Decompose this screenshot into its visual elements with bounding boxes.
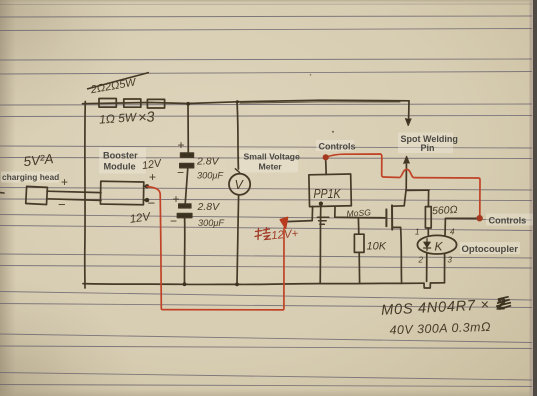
- svg-text:4: 4: [450, 228, 455, 237]
- pen speck: [310, 74, 312, 76]
- svg-text:−: −: [170, 214, 177, 228]
- MOSFET Q1 source wire to bus: [401, 227, 402, 283]
- wire 12V+ to PP1K lead A: [287, 221, 313, 222]
- junction dot top bus / caps: [186, 102, 190, 106]
- svg-text:Pin: Pin: [421, 143, 435, 153]
- spot welding bottom electrode arrowhead: [404, 156, 409, 163]
- svg-text:1Ω 5W: 1Ω 5W: [99, 110, 139, 127]
- wire C2 to bottom bus: [183, 218, 185, 284]
- voltmeter V1 circle: [229, 174, 250, 195]
- text: MOS 4N04R7 X2 note: [381, 296, 512, 320]
- MOSFET Q1 source tick: [392, 226, 400, 228]
- PP1K top lead to controls: [325, 160, 328, 174]
- svg-text:Small Voltage: Small Voltage: [244, 152, 300, 162]
- bus hook square at pin2: [424, 283, 430, 288]
- svg-text:K: K: [435, 240, 444, 254]
- red wire from booster + down and around to 12V+ arrow: [147, 187, 284, 310]
- svg-text:−: −: [177, 166, 184, 180]
- svg-text:MoSG: MoSG: [346, 207, 371, 218]
- resistor R1: [99, 99, 116, 108]
- red wire from left controls dot to right controls dot: [326, 154, 480, 215]
- text: MoSG: [346, 207, 371, 218]
- PP1K bottom lead A to 12V wire: [311, 206, 313, 220]
- opto LED cathode lead inside: [426, 239, 428, 251]
- opto pin3 lead down to bus: [444, 254, 446, 283]
- svg-text:2: 2: [418, 256, 424, 265]
- junction dot bottom bus / caps: [183, 282, 187, 286]
- svg-text:12V+: 12V+: [271, 228, 299, 242]
- charging head connector: [26, 186, 48, 204]
- voltmeter bottom wire: [237, 195, 239, 285]
- svg-text:5V²A: 5V²A: [23, 151, 54, 169]
- capacitor C1 plates: [180, 153, 194, 168]
- text: scratched 2ohm 2ohm 5W: [89, 76, 138, 96]
- R5 top lead: [427, 190, 429, 206]
- resistor R4 10K box: [354, 234, 364, 252]
- pen speck: [332, 131, 334, 133]
- booster module box U1: [100, 181, 143, 205]
- MOSFET Q1 channel bar: [391, 205, 393, 229]
- svg-text:PP1K: PP1K: [314, 186, 342, 201]
- junction dot booster +: [145, 184, 149, 188]
- junction dot booster -: [145, 198, 149, 202]
- wire drain node jog to 560: [406, 189, 429, 191]
- optocoupler U3 body: [417, 235, 456, 254]
- svg-text:3: 3: [448, 256, 453, 265]
- spot welding top electrode wire: [408, 101, 410, 121]
- spot welding bottom electrode shaft: [405, 158, 407, 190]
- red arrow head at 12V+: [280, 217, 287, 228]
- text: 12V bottom: [129, 211, 152, 226]
- svg-text:560Ω: 560Ω: [432, 204, 458, 217]
- svg-text:−: −: [148, 196, 156, 211]
- svg-text:300μF: 300μF: [198, 218, 225, 228]
- svg-text:Module: Module: [104, 162, 136, 172]
- junction dot top bus / voltmeter: [236, 100, 239, 103]
- svg-text:+: +: [173, 192, 180, 206]
- wire: bottom bus: [83, 283, 424, 284]
- svg-text:Booster: Booster: [103, 151, 138, 161]
- svg-text:+: +: [178, 138, 185, 152]
- svg-text:Meter: Meter: [259, 162, 283, 172]
- ground marks on lead B: [317, 217, 328, 224]
- wire C1 to C2: [185, 168, 188, 204]
- resistor R2: [124, 99, 141, 107]
- svg-text:Optocoupler: Optocoupler: [462, 244, 519, 255]
- text: 12V top: [141, 157, 163, 172]
- capacitor C1 lead from bus: [187, 104, 189, 153]
- wire: top bus: [83, 100, 410, 104]
- svg-text:+: +: [149, 170, 156, 184]
- wire: left vertical: [84, 102, 87, 289]
- text: 560 ohm: [432, 204, 458, 217]
- R4 bottom lead to bus: [358, 252, 360, 283]
- text: jie (connect) CJK glyph drawn as strokes, red: [255, 228, 271, 240]
- voltmeter top wire: [237, 102, 238, 169]
- text: 12V+ red: [271, 228, 299, 242]
- bus right end to pin3: [430, 282, 444, 284]
- text: 40V 300A 0.3mohm note: [389, 320, 491, 338]
- photo dark right edge: [530, 0, 534, 396]
- MOSFET Q1 drain tick: [392, 205, 404, 207]
- strikethrough: [87, 73, 149, 90]
- R5 bottom lead to opto pin1: [427, 228, 429, 236]
- red dot left controls: [323, 154, 329, 160]
- text: 5V2A: [23, 151, 54, 169]
- svg-text:10K: 10K: [367, 241, 387, 253]
- spot welding top electrode arrowhead: [406, 119, 411, 126]
- svg-text:2.8V: 2.8V: [196, 156, 220, 168]
- PP1K bottom lead B to ground bus: [319, 204, 322, 284]
- resistor R3: [147, 99, 164, 108]
- wire drain vertical: [404, 190, 406, 205]
- svg-text:charging head: charging head: [2, 172, 59, 182]
- opto pin4 lead up and wire to right controls: [445, 218, 477, 236]
- svg-text:2.8V: 2.8V: [197, 201, 221, 213]
- opto LED triangle: [424, 242, 431, 248]
- svg-text:−: −: [58, 197, 66, 212]
- MOSFET Q1 gate bar: [385, 209, 387, 226]
- R4 top lead to gate wire: [357, 218, 359, 235]
- charging head cable: [47, 191, 101, 192]
- junction dot bottom bus / voltmeter: [235, 283, 239, 287]
- booster - output lead: [144, 199, 146, 201]
- svg-text:Controls: Controls: [319, 142, 356, 152]
- svg-text:+: +: [61, 175, 68, 189]
- booster + output lead: [144, 185, 146, 187]
- voltmeter arrow tick: [235, 169, 240, 173]
- capacitor C2 plates: [177, 204, 192, 218]
- svg-text:300μF: 300μF: [197, 171, 224, 181]
- junction dot PP1K lead B: [319, 202, 323, 206]
- svg-text:Controls: Controls: [489, 216, 527, 226]
- red dot right controls: [476, 215, 482, 221]
- opto LED bar: [424, 247, 431, 249]
- svg-text:1: 1: [415, 228, 419, 237]
- svg-text:×3: ×3: [137, 109, 155, 126]
- resistor R5 560ohm box: [425, 207, 431, 228]
- PP1K gate lead L-shape to MOSFET gate: [335, 207, 385, 218]
- opto pin2 lead down: [426, 254, 428, 282]
- PP1K module box U2: [309, 174, 351, 207]
- wire stub at left edge: [0, 192, 4, 194]
- text: 1ohm 5W X3: [99, 109, 156, 129]
